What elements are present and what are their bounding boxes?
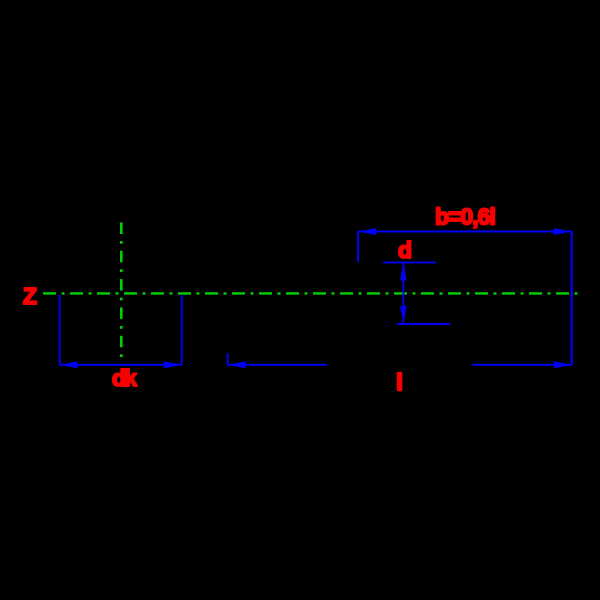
svg-text:l: l — [396, 369, 402, 395]
shared right extension line (b and l) — [571, 231, 573, 366]
svg-text:b=0,6l: b=0,6l — [435, 204, 495, 230]
dimension dk: dimension line — [60, 364, 182, 366]
dimension b: right arrow — [554, 228, 572, 235]
dimension dk: left arrow — [60, 361, 78, 368]
dimension l: left arrow — [228, 361, 246, 368]
dimension d: bottom extension line — [397, 323, 450, 325]
dimension b: dimension line — [358, 231, 572, 233]
dimension l: right arrow — [554, 361, 572, 368]
dimension d: top extension line — [383, 261, 436, 263]
vertical centerline head axis — [120, 223, 123, 361]
dimension l: left line segment — [228, 364, 327, 366]
dimension d: vertical shaft — [402, 262, 404, 324]
dimension b: left extension stub — [357, 232, 359, 263]
dimension d: down arrow — [400, 306, 407, 324]
dimension dk: right arrow — [164, 361, 182, 368]
dimension l: left terminator stub — [227, 353, 229, 365]
svg-text:d: d — [398, 237, 412, 263]
svg-text:dk: dk — [112, 365, 137, 391]
dimension b: left arrow — [358, 228, 376, 235]
dimension l: right line segment — [472, 364, 572, 366]
dimension d: up arrow — [400, 262, 407, 280]
dimension dk: right extension line — [181, 295, 183, 366]
horizontal centerline Z axis — [43, 292, 578, 294]
dimension dk: left extension line — [59, 295, 61, 366]
svg-text:Z: Z — [23, 283, 37, 309]
